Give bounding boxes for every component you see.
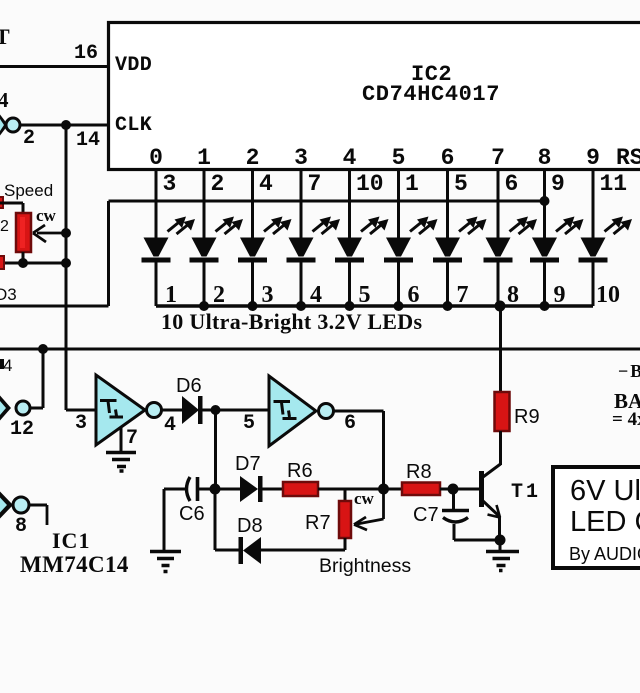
svg-text:4: 4 bbox=[343, 145, 357, 171]
potentiometer R2 (Speed) bbox=[16, 213, 31, 252]
svg-text:1: 1 bbox=[197, 145, 211, 171]
svg-text:6: 6 bbox=[441, 145, 455, 171]
svg-text:T1: T1 bbox=[511, 481, 541, 504]
svg-text:9: 9 bbox=[586, 145, 600, 171]
IC1 inverter U1F tip fragment (pin 2) bbox=[0, 115, 8, 136]
wire reset feed horizontal bbox=[109, 200, 545, 203]
svg-text:D7: D7 bbox=[235, 453, 261, 475]
svg-text:D8: D8 bbox=[237, 515, 263, 537]
resistor R8 bbox=[402, 483, 440, 496]
IC1 pin8 output bubble bbox=[13, 497, 29, 513]
T1 emitter bbox=[483, 501, 499, 516]
svg-text:1: 1 bbox=[165, 282, 177, 308]
resistor fragment at left edge (top) bbox=[0, 197, 3, 208]
svg-text:6V Ult: 6V Ult bbox=[570, 475, 640, 507]
wire IC2 output stub 5 bbox=[397, 170, 400, 238]
op inverter U1B triangle bbox=[269, 376, 316, 446]
R2 wiper arrow bbox=[37, 232, 66, 235]
svg-text:C6: C6 bbox=[179, 503, 205, 525]
wire U1B out drop bbox=[382, 411, 385, 489]
LED6 bbox=[386, 238, 411, 257]
LED2 emission arrows bbox=[216, 221, 239, 235]
svg-text:3: 3 bbox=[75, 412, 87, 435]
svg-text:6: 6 bbox=[408, 282, 420, 308]
svg-text:10: 10 bbox=[356, 171, 384, 197]
wire CLK from IC1 pin2 to IC2 pin14 bbox=[18, 124, 108, 127]
LED6 emission arrows bbox=[410, 221, 433, 235]
wire D6 node to C6 node bbox=[214, 410, 217, 489]
diode D8 bbox=[239, 537, 244, 564]
R7 wiper arrow bbox=[382, 489, 385, 519]
capacitor C6 straight plate bbox=[196, 477, 200, 501]
svg-text:By AUDIOG: By AUDIOG bbox=[569, 544, 640, 564]
svg-text:0: 0 bbox=[149, 145, 163, 171]
svg-text:LED Ch: LED Ch bbox=[570, 506, 640, 538]
wire D3 horizontal bbox=[0, 305, 109, 308]
U1B output bubble bbox=[319, 404, 334, 419]
wire U1B out bbox=[333, 410, 384, 413]
LED3 emission arrows bbox=[264, 221, 287, 235]
node LED bus junction bbox=[394, 301, 404, 311]
node reset feed at LED9 column bbox=[540, 196, 550, 206]
svg-text:8: 8 bbox=[538, 145, 552, 171]
node C6/D7/D8 junction bbox=[210, 484, 221, 495]
svg-text:cw: cw bbox=[36, 206, 57, 225]
capacitor C6 curved plate bbox=[187, 477, 191, 501]
svg-text:T: T bbox=[0, 24, 10, 49]
LED1 emission arrows bbox=[168, 221, 191, 235]
svg-text:2: 2 bbox=[23, 127, 35, 150]
svg-text:6: 6 bbox=[505, 171, 519, 197]
wire IC2 output stub 0 bbox=[155, 170, 158, 238]
wire U1A out to D6 bbox=[161, 409, 182, 412]
wire LED cathode bus bbox=[156, 304, 593, 307]
node supply to IC1 pin12 bbox=[38, 344, 48, 354]
svg-text:4: 4 bbox=[3, 356, 12, 375]
wire LED6 cathode bbox=[397, 262, 400, 306]
svg-text:2: 2 bbox=[0, 218, 9, 235]
svg-text:C7: C7 bbox=[413, 504, 439, 526]
wire C7 to emitter ground bbox=[453, 524, 456, 540]
wire C6 to D7 node bbox=[198, 488, 240, 491]
IC1 pin2 output bubble bbox=[6, 118, 20, 132]
wire clock net vertical bbox=[65, 125, 68, 410]
svg-text:R8: R8 bbox=[406, 461, 432, 483]
wire IC2 output stub 3 bbox=[300, 170, 303, 238]
svg-text:3: 3 bbox=[294, 145, 308, 171]
wire IC2 output stub 1 bbox=[203, 170, 206, 238]
LED7 emission arrows bbox=[459, 221, 482, 235]
svg-text:IC1: IC1 bbox=[52, 528, 90, 553]
U1A output bubble bbox=[147, 403, 162, 418]
wire IC2 output stub 6 bbox=[446, 170, 449, 238]
wire IC2 output stub 4 bbox=[348, 170, 351, 238]
svg-text:VDD: VDD bbox=[115, 54, 152, 77]
svg-text:6: 6 bbox=[344, 412, 356, 435]
wire LED7 cathode bbox=[446, 262, 449, 306]
wire C6 ground drop bbox=[163, 489, 166, 551]
LED2 bbox=[192, 238, 217, 257]
svg-text:5: 5 bbox=[392, 145, 406, 171]
node clock net / R2 bottom bbox=[61, 258, 71, 268]
svg-text:2: 2 bbox=[213, 282, 225, 308]
IC1 pin12 output bubble bbox=[16, 401, 30, 415]
U1A hysteresis symbol bbox=[100, 401, 123, 418]
node LED bus to R9 bbox=[495, 301, 506, 312]
svg-text:9: 9 bbox=[554, 282, 566, 308]
svg-text:16: 16 bbox=[74, 42, 98, 65]
node LED bus junction bbox=[199, 301, 209, 311]
LED10 bbox=[581, 238, 606, 257]
LED8 emission arrows bbox=[510, 221, 533, 235]
wire LED bus to R9 bbox=[499, 306, 502, 392]
svg-text:5: 5 bbox=[454, 171, 468, 197]
wire IC2 output stub 2 bbox=[251, 170, 254, 238]
svg-text:CD74HC4017: CD74HC4017 bbox=[362, 82, 500, 107]
wire D7 to R6 bbox=[262, 488, 283, 491]
svg-text:11: 11 bbox=[600, 171, 628, 197]
svg-text:4: 4 bbox=[310, 282, 322, 308]
wire to IC1 pin 3 bbox=[66, 409, 97, 412]
svg-text:14: 14 bbox=[76, 129, 100, 152]
IC1 inverter tip fragment (pin 8) bbox=[0, 492, 13, 519]
wire D6 to U1B bbox=[202, 409, 269, 412]
svg-text:7: 7 bbox=[457, 282, 469, 308]
node R2 bottom junction bbox=[18, 258, 28, 268]
wire positive supply rail bbox=[0, 348, 640, 351]
wire IC2 output stub 8 bbox=[543, 170, 546, 238]
LED8 bbox=[486, 238, 511, 257]
wire VDD supply (pin 16) bbox=[0, 65, 108, 68]
svg-text:CLK: CLK bbox=[115, 114, 152, 137]
node LED bus junction bbox=[443, 301, 453, 311]
svg-text:9: 9 bbox=[551, 171, 565, 197]
node U1B out / R7 wiper bbox=[378, 484, 389, 495]
node LED bus junction bbox=[296, 301, 306, 311]
wire LED3 cathode bbox=[251, 262, 254, 306]
svg-text:7: 7 bbox=[491, 145, 505, 171]
node R8/C7 junction bbox=[448, 484, 459, 495]
wire C6 left bbox=[164, 488, 185, 491]
node LED bus junction bbox=[540, 301, 550, 311]
svg-text:R6: R6 bbox=[287, 460, 313, 482]
svg-text:D6: D6 bbox=[176, 375, 202, 397]
wire node down to D8 row bbox=[214, 489, 217, 550]
wire IC2 output stub 9 bbox=[592, 170, 595, 238]
ground C6 bbox=[150, 552, 181, 572]
svg-text:12: 12 bbox=[10, 418, 34, 441]
svg-text:R9: R9 bbox=[514, 406, 540, 428]
wire R2 bottom rail bbox=[0, 262, 66, 265]
LED4 bbox=[289, 238, 314, 257]
svg-text:Speed: Speed bbox=[4, 181, 53, 200]
svg-text:cw: cw bbox=[354, 489, 375, 508]
svg-text:D3: D3 bbox=[0, 285, 17, 304]
IC1 inverter tip fragment (pin 12) bbox=[0, 396, 11, 421]
wire LED9 cathode bbox=[543, 262, 546, 306]
wire LED1 cathode bbox=[155, 262, 158, 306]
svg-text:1: 1 bbox=[405, 171, 419, 197]
wire LED8 cathode bbox=[497, 262, 500, 306]
diode D7 bbox=[240, 476, 258, 502]
wire T1 emitter to ground bbox=[498, 516, 501, 540]
wire LED10 cathode bbox=[592, 262, 595, 306]
svg-text:2: 2 bbox=[211, 171, 225, 197]
U1B hysteresis symbol bbox=[274, 402, 297, 419]
svg-text:7: 7 bbox=[308, 171, 322, 197]
resistor R9 bbox=[495, 392, 510, 431]
svg-text:10: 10 bbox=[596, 282, 620, 308]
svg-text:5: 5 bbox=[359, 282, 371, 308]
wire R2 bottom bbox=[22, 252, 25, 263]
wire pin8 stub bbox=[29, 504, 47, 507]
wire R9 to T1 collector bbox=[499, 431, 502, 465]
svg-text:3: 3 bbox=[163, 171, 177, 197]
potentiometer R7 (Brightness) bbox=[339, 501, 351, 538]
LED4 emission arrows bbox=[313, 221, 336, 235]
svg-text:4: 4 bbox=[164, 414, 176, 437]
wire emitter ground stub bbox=[499, 540, 502, 551]
svg-text:4: 4 bbox=[0, 88, 9, 112]
node CLK junction bbox=[61, 120, 71, 130]
node D6 cathode junction bbox=[211, 405, 221, 415]
node R2 wiper junction bbox=[61, 228, 71, 238]
svg-text:Brightness: Brightness bbox=[319, 555, 411, 577]
wire LED4 cathode bbox=[300, 262, 303, 306]
wire pin12 riser bbox=[42, 349, 45, 408]
wire R7 top stub bbox=[344, 489, 347, 501]
svg-text:3: 3 bbox=[262, 282, 274, 308]
svg-text:R7: R7 bbox=[305, 512, 331, 534]
diode D4 fragment bbox=[0, 359, 4, 369]
capacitor C7 curved plate bbox=[443, 518, 468, 523]
wire IC2 output stub 7 bbox=[497, 170, 500, 238]
transistor T1 base bar bbox=[479, 471, 484, 507]
svg-text:8: 8 bbox=[15, 515, 27, 538]
svg-text:RST: RST bbox=[616, 145, 640, 171]
node emitter ground junction bbox=[495, 535, 506, 546]
LED9 bbox=[532, 238, 557, 257]
wire pin12 stub bbox=[30, 407, 43, 410]
wire R6 to R8 bbox=[318, 488, 403, 491]
LED10 emission arrows bbox=[605, 221, 628, 235]
resistor fragment at left edge (bottom) bbox=[0, 256, 4, 269]
wire D8 to R7 bottom bbox=[261, 549, 345, 552]
LED9 emission arrows bbox=[556, 221, 579, 235]
wire LED2 cathode bbox=[203, 262, 206, 306]
svg-text:5: 5 bbox=[243, 412, 255, 435]
wire LED5 cathode bbox=[348, 262, 351, 306]
resistor R6 bbox=[283, 482, 318, 496]
svg-text:8: 8 bbox=[507, 282, 519, 308]
IC2 CD74HC4017 body bbox=[109, 23, 640, 170]
svg-text:= 4x: = 4x bbox=[612, 409, 640, 430]
U1A ground stub bbox=[120, 428, 123, 452]
LED1 bbox=[144, 238, 169, 257]
wire R8 to T1 base bbox=[440, 488, 479, 491]
svg-text:2: 2 bbox=[246, 145, 260, 171]
svg-text:10 Ultra-Bright 3.2V LEDs: 10 Ultra-Bright 3.2V LEDs bbox=[161, 309, 422, 334]
wire D8 row left bbox=[215, 549, 240, 552]
LED3 bbox=[240, 238, 265, 257]
svg-text:−B: −B bbox=[618, 361, 640, 381]
LED5 emission arrows bbox=[361, 221, 384, 235]
LED5 bbox=[337, 238, 362, 257]
svg-text:4: 4 bbox=[259, 171, 273, 197]
svg-text:7: 7 bbox=[126, 427, 138, 450]
wire R2 top bbox=[0, 202, 23, 205]
node LED bus junction bbox=[345, 301, 355, 311]
ground T1 emitter bbox=[486, 552, 519, 571]
ground IC1 pin7 bbox=[106, 453, 136, 472]
svg-text:MM74C14: MM74C14 bbox=[20, 552, 129, 577]
node LED bus junction bbox=[248, 301, 258, 311]
title box bbox=[553, 467, 640, 568]
op inverter U1A triangle bbox=[96, 375, 145, 445]
diode D6 bbox=[182, 396, 199, 424]
wire D3 riser bbox=[107, 201, 110, 306]
wire C7 drop bbox=[452, 489, 455, 510]
capacitor C7 straight plate bbox=[442, 509, 469, 513]
LED7 bbox=[435, 238, 460, 257]
